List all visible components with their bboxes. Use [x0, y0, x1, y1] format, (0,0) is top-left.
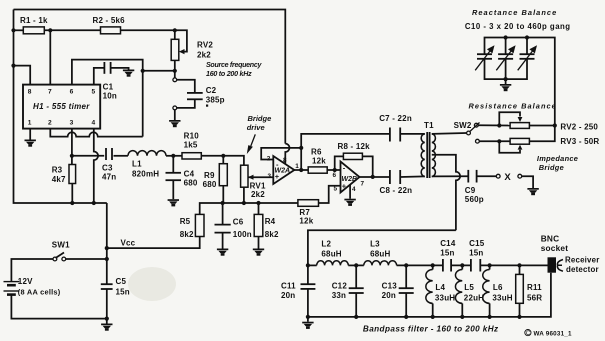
svg-text:10n: 10n — [103, 92, 117, 101]
svg-text:L2: L2 — [321, 240, 331, 249]
junction R2-RV2 top — [173, 28, 177, 32]
svg-text:C: C — [526, 331, 531, 337]
svg-text:C3: C3 — [102, 164, 113, 173]
C10c arrow — [518, 45, 537, 70]
speck near 385p — [206, 105, 208, 107]
wire C12 stubs — [355, 265, 357, 288]
wire C11 stub bottom — [307, 289, 309, 317]
junction SW1-C5 node — [105, 257, 109, 261]
wire filter ground stub — [307, 317, 309, 322]
svg-text:385p: 385p — [206, 95, 225, 104]
wire L2 to L3 — [348, 264, 364, 266]
svg-text:33n: 33n — [332, 291, 346, 300]
svg-text:820mH: 820mH — [132, 170, 159, 179]
svg-text:RV2: RV2 — [197, 41, 213, 50]
wire pin 1 to ground — [29, 129, 31, 140]
inductor L2 68uH — [317, 261, 349, 266]
wire C10 gang top rail — [485, 38, 555, 126]
wire R4 top lead — [258, 203, 260, 214]
potentiometer RV2 2k2 — [171, 39, 179, 60]
svg-text:2k2: 2k2 — [197, 51, 211, 60]
svg-text:7: 7 — [361, 180, 365, 187]
svg-text:3: 3 — [70, 120, 74, 127]
wire C8 right plate to T1 primary bottom — [400, 175, 425, 178]
junction pin4 rail — [92, 201, 96, 205]
svg-text:L6: L6 — [493, 283, 503, 292]
wire center tap feed left to filter input — [308, 230, 456, 265]
junction pin3-R3-C3 — [70, 154, 74, 158]
junction RV2 left-wiper node — [497, 123, 501, 127]
resistor R10 — [182, 153, 201, 159]
svg-text:20n: 20n — [382, 291, 396, 300]
svg-text:6: 6 — [70, 89, 74, 96]
svg-text:C9: C9 — [465, 186, 476, 195]
junction L5 top — [460, 263, 464, 267]
potentiometer RV1 2k2 — [241, 165, 248, 187]
wire R9 bottom lead — [222, 186, 224, 203]
capacitor C4 — [166, 173, 182, 180]
receiver detector probe symbol — [557, 260, 563, 272]
wire battery top to SW1 — [11, 259, 53, 282]
svg-text:W2B: W2B — [342, 176, 358, 183]
svg-text:C14: C14 — [440, 239, 456, 248]
wire pin 8 stub — [14, 66, 31, 85]
junction rail-pin8 — [11, 64, 15, 68]
ground W2B pin4 — [344, 199, 355, 206]
junction filter input C11 — [306, 263, 310, 267]
junction battery return node — [105, 317, 109, 321]
svg-text:drive: drive — [247, 123, 265, 132]
wire C7 right plate to T1 primary top — [400, 133, 425, 135]
svg-text:R11: R11 — [527, 283, 542, 292]
junction R10-R9-RV1 — [221, 154, 225, 158]
svg-text:2k2: 2k2 — [251, 190, 265, 199]
wire C9 to X terminal — [477, 175, 497, 177]
RV2 250 wiper loop — [499, 112, 520, 125]
jumper circle bottom — [173, 106, 177, 110]
wire bottom-left rail down to Vcc node and C5 top — [106, 203, 108, 284]
resistor R9 — [219, 164, 227, 186]
svg-text:4: 4 — [352, 186, 356, 193]
junction C11 bottom — [306, 315, 310, 319]
svg-text:68uH: 68uH — [321, 249, 341, 258]
svg-text:R2 - 5k6: R2 - 5k6 — [93, 16, 126, 25]
svg-text:R8 - 12k: R8 - 12k — [338, 142, 371, 151]
svg-text:Bandpass filter - 160 to 200 k: Bandpass filter - 160 to 200 kHz — [363, 325, 499, 334]
wire pin 3 down to node — [71, 129, 73, 156]
inductor L1 820mH — [128, 151, 166, 156]
wire RV3 right lead up to node — [529, 126, 554, 142]
junction C13 bottom — [404, 315, 408, 319]
svg-text:C4: C4 — [184, 170, 195, 179]
junction L4 bottom — [431, 315, 435, 319]
svg-text:6: 6 — [333, 172, 337, 179]
svg-text:WA 96031_1: WA 96031_1 — [534, 331, 572, 338]
svg-text:R3: R3 — [52, 165, 63, 174]
junction R1-R2-pin7 — [48, 28, 52, 32]
transformer T1 core lines — [426, 132, 428, 178]
wire C14 to C15 — [451, 264, 471, 266]
junction L1-C4-R10 — [171, 154, 175, 158]
junction W2A output node — [299, 168, 303, 172]
inductor L4 33uH — [432, 265, 434, 269]
junction rail-R1 — [11, 28, 15, 32]
ground C1 — [123, 70, 134, 77]
wire C11 stub top — [307, 265, 309, 284]
svg-text:20n: 20n — [281, 291, 295, 300]
svg-text:15n: 15n — [469, 248, 483, 257]
wire C15 to BNC — [480, 264, 547, 266]
op-amp W2A triangle — [273, 156, 294, 184]
svg-text:R4: R4 — [265, 217, 276, 226]
svg-text:3: 3 — [268, 173, 272, 180]
ground X terminal — [527, 188, 538, 195]
capacitor C13 — [399, 288, 414, 293]
svg-text:(8 AA cells): (8 AA cells) — [18, 287, 61, 296]
svg-text:L1: L1 — [132, 159, 142, 168]
copyright WA 96031_1 — [525, 330, 572, 338]
svg-text:R9: R9 — [204, 171, 215, 180]
wire RV1 wiper to W2A pin 3 — [248, 176, 273, 178]
svg-text:160 to 200 kHz: 160 to 200 kHz — [206, 70, 252, 78]
wire C5 node to ground — [106, 319, 108, 324]
wire R3 leads — [71, 156, 73, 165]
wire R4 bottom to ground — [258, 237, 260, 249]
svg-text:R1 - 1k: R1 - 1k — [20, 16, 48, 25]
svg-text:SW1: SW1 — [52, 240, 70, 249]
wire W2A feedback node down to output node — [300, 148, 302, 170]
svg-text:Source frequency: Source frequency — [206, 61, 262, 69]
svg-text:Bridge: Bridge — [248, 114, 272, 123]
svg-text:R10: R10 — [184, 132, 200, 141]
svg-text:5: 5 — [92, 89, 96, 96]
wire RV2 top terminal and wiper loop — [174, 30, 176, 39]
IC H1 555 timer box — [23, 85, 100, 129]
wire R9 top lead — [222, 156, 224, 164]
wire supply hop over feedback line — [285, 144, 289, 164]
wire top outer rail to W2A pin8 supply — [14, 10, 286, 144]
svg-text:W2A: W2A — [275, 168, 291, 175]
RV3 50R wiper arrowhead — [518, 145, 523, 150]
variable capacitor C10c — [520, 54, 535, 59]
svg-text:68uH: 68uH — [370, 249, 390, 258]
junction RV2-RV3-C10 right node — [553, 123, 557, 127]
capacitor C15 — [471, 259, 480, 272]
svg-text:T1: T1 — [424, 121, 434, 130]
RV3 50R wiper loop — [499, 141, 520, 153]
wire pin 2 down and right to pin6 node (hops pins 3,4) — [50, 129, 142, 137]
svg-text:detector: detector — [566, 265, 599, 274]
capacitor C1 — [104, 62, 110, 74]
wire C2 bottom to jumper bottom circle — [177, 99, 195, 108]
ground C2 jumper — [169, 120, 180, 127]
wire R8 right lead down to W2B output node — [362, 156, 372, 177]
capacitor C3 — [106, 148, 112, 160]
C10b arrow — [496, 45, 515, 70]
svg-text:C8 - 22n: C8 - 22n — [380, 186, 413, 195]
wire T1 secondary top to SW2 common — [432, 132, 467, 135]
SW2 selector circles — [467, 131, 471, 135]
resistor R2 — [101, 27, 121, 34]
svg-text:C15: C15 — [469, 239, 485, 248]
wire C4 bottom to ground — [172, 181, 174, 200]
svg-text:4k7: 4k7 — [52, 175, 66, 184]
wire RV2 wiper — [175, 30, 187, 51]
svg-text:33uH: 33uH — [435, 293, 455, 302]
svg-text:Bridge: Bridge — [539, 163, 564, 172]
svg-text:12k: 12k — [312, 157, 326, 166]
jumper circle top — [173, 78, 177, 82]
wire L1 to R10 via C4 node — [166, 155, 182, 157]
svg-text:C10 - 3 x 20 to 460p gang: C10 - 3 x 20 to 460p gang — [465, 22, 571, 31]
junction RV2 bottom — [173, 69, 177, 73]
wire inner rail R1 lead — [14, 29, 24, 31]
svg-text:15n: 15n — [440, 248, 454, 257]
svg-text:C5: C5 — [116, 277, 127, 286]
capacitor C5 — [101, 284, 113, 289]
svg-text:socket: socket — [541, 243, 569, 253]
svg-text:8: 8 — [283, 157, 287, 164]
capacitor C2 — [187, 93, 203, 99]
junction W2B output node — [371, 175, 375, 179]
svg-text:L5: L5 — [464, 283, 474, 292]
switch SW1 circles — [53, 257, 57, 261]
wire filter ground rail — [308, 273, 551, 317]
junction R11 bottom — [517, 315, 521, 319]
svg-text:15n: 15n — [116, 287, 130, 296]
capacitor C6 — [215, 225, 231, 233]
svg-text:L4: L4 — [435, 283, 445, 292]
wire T1 secondary bottom to C9 — [432, 175, 469, 177]
wire SW2 throw2 to RV3 row — [479, 140, 510, 142]
wire pin 7 stub — [49, 30, 51, 84]
svg-text:1k5: 1k5 — [184, 140, 198, 149]
junction pin2/6 node to C2 branch — [141, 69, 145, 73]
wire RV2 bottom to jumper circle — [174, 60, 176, 78]
junction C12 bottom — [354, 315, 358, 319]
capacitor C14 — [443, 259, 451, 272]
svg-text:680: 680 — [184, 178, 198, 187]
junction L6 bottom — [488, 315, 492, 319]
svg-text:4: 4 — [92, 120, 96, 127]
wire left vertical rail down to bottom-left rail — [14, 10, 107, 204]
svg-text:56R: 56R — [527, 293, 542, 302]
wire T1 center tap right then down (hops C9 wire) — [432, 155, 460, 230]
resistor R4 — [254, 214, 263, 236]
wire C5 bottom to battery-return node — [106, 289, 108, 319]
svg-text:680: 680 — [203, 180, 217, 189]
junction C10b top — [504, 35, 508, 39]
svg-text:C12: C12 — [332, 282, 348, 291]
wire jumper bottom circle to ground — [174, 110, 176, 120]
RV2 wiper arrowhead — [179, 49, 185, 54]
svg-text:1: 1 — [28, 120, 32, 127]
wire W2A output to R6 — [294, 169, 308, 171]
wire C4 down from node — [172, 156, 174, 173]
battery 12V plates — [4, 282, 20, 295]
resistor R3 — [69, 165, 76, 184]
wire W2A pin2 feedback bracket — [261, 148, 301, 160]
transformer T1 primary winding — [421, 134, 425, 177]
junction L4 top — [431, 263, 435, 267]
svg-text:47n: 47n — [102, 173, 116, 182]
junction R9-C6 bias rail — [221, 201, 225, 205]
capacitor C12 — [349, 288, 364, 293]
svg-text:Receiver: Receiver — [565, 256, 600, 265]
wire C10 cap3 top stub — [526, 38, 528, 55]
ground C4 — [168, 199, 179, 206]
transformer T1 secondary winding — [432, 134, 436, 177]
svg-text:RV3 - 50R: RV3 - 50R — [560, 137, 599, 146]
SW2 lever — [470, 123, 480, 132]
wire filter signal rail input to L2 — [308, 264, 317, 266]
C10a arrow — [475, 45, 494, 70]
svg-text:X: X — [504, 172, 511, 183]
svg-text:Vcc: Vcc — [121, 239, 136, 248]
svg-text:RV2 - 250: RV2 - 250 — [560, 122, 598, 131]
BNC socket body — [548, 257, 557, 272]
wire SW2 throw1 to RV2 row — [478, 124, 510, 126]
svg-text:100n: 100n — [233, 230, 252, 239]
junction W2B pin6 node — [333, 168, 337, 172]
wire C10 gang ground stub — [505, 79, 507, 84]
svg-text:C13: C13 — [382, 282, 398, 291]
svg-text:Reactance Balance: Reactance Balance — [472, 8, 557, 17]
capacitor C7 — [390, 128, 400, 142]
wire bias rail R5 C6 R4 to R7 — [200, 203, 298, 214]
svg-text:C1: C1 — [103, 83, 114, 92]
svg-text:1: 1 — [295, 163, 299, 170]
resistor R5 — [195, 214, 204, 236]
svg-text:Resistance Balance: Resistance Balance — [469, 101, 557, 110]
wire C10 gang bottom rail — [485, 59, 528, 79]
svg-text:7: 7 — [48, 89, 52, 96]
wire W2B output to C8 — [360, 176, 390, 178]
svg-text:R5: R5 — [180, 217, 191, 226]
svg-text:SW2: SW2 — [454, 121, 472, 130]
resistor R11 — [519, 265, 521, 274]
junction C10 gang ground node — [504, 77, 508, 81]
svg-text:8k2: 8k2 — [265, 230, 279, 239]
ground filter rail — [302, 322, 313, 329]
svg-text:8k2: 8k2 — [180, 230, 194, 239]
wire R3 bottom to rail — [71, 184, 73, 204]
wire C13 stubs — [405, 265, 407, 288]
wire L3 to C14 — [397, 264, 443, 266]
wire SW1 to Vcc node — [66, 258, 107, 260]
wire X right circle to ground — [522, 176, 533, 188]
RV1 wiper arrowhead — [248, 175, 254, 180]
RV2 250 wiper arrowhead — [518, 117, 523, 122]
Bridge drive arrow — [247, 134, 256, 154]
svg-text:560p: 560p — [465, 195, 484, 204]
svg-text:C2: C2 — [206, 86, 217, 95]
svg-text:R7: R7 — [299, 208, 310, 217]
wire R8 feedback loop — [335, 156, 344, 170]
junction L5 bottom — [460, 315, 464, 319]
svg-text:8: 8 — [28, 89, 32, 96]
wire C10 cap2 stubs — [505, 38, 507, 55]
SW1 lever — [56, 253, 65, 259]
junction C10c top — [525, 35, 529, 39]
svg-text:2: 2 — [267, 156, 271, 163]
wire RV1 bottom lead — [243, 187, 245, 203]
wire pin 5 stub to C1 — [94, 68, 104, 85]
ground R4 — [253, 249, 264, 256]
capacitor C9 — [468, 170, 476, 183]
wire R7 right lead up to W2B pin5 — [319, 186, 341, 203]
resistor R7 — [298, 200, 319, 207]
potentiometer RV2 250 body — [510, 123, 529, 129]
variable capacitor C10a — [477, 54, 492, 59]
svg-text:BNC: BNC — [541, 234, 560, 244]
junction RV3 left-wiper node — [497, 139, 501, 143]
wire battery bottom loop — [11, 295, 106, 319]
wire W2A feedback node up to C7 — [301, 134, 390, 148]
wire pin2/6 node to RV2 bottom — [143, 70, 175, 72]
wire C6 bottom to ground — [222, 233, 224, 249]
junction R4 top bias rail — [256, 201, 260, 205]
svg-text:RV1: RV1 — [250, 181, 266, 190]
svg-text:-: - — [343, 164, 346, 173]
resistor R1 — [23, 27, 44, 34]
resistor R6 — [308, 167, 327, 173]
junction L6 top — [488, 263, 492, 267]
variable capacitor C10b — [498, 54, 513, 59]
junction RV1 bottom bias rail — [242, 201, 246, 205]
op-amp W2B triangle — [341, 162, 360, 193]
ground C10 gang — [500, 84, 511, 91]
wire jumper top circle to C2 top — [177, 80, 195, 92]
svg-text:22uH: 22uH — [464, 293, 484, 302]
ground C6 — [217, 249, 228, 256]
wire pin 4 down to bottom rail (hops C3 wire) — [94, 129, 98, 203]
junction W2A feedback node — [299, 146, 303, 150]
svg-text:L3: L3 — [370, 240, 380, 249]
wire C6 top lead — [222, 203, 224, 225]
inductor L3 68uH — [364, 261, 397, 266]
wire R1 to R2 via pin7 node — [44, 29, 100, 31]
ground pin1 — [25, 140, 36, 147]
wire R6 to W2B pin6 node — [327, 169, 340, 171]
svg-text:Impedance: Impedance — [537, 154, 578, 163]
junction R3 bottom rail — [70, 201, 74, 205]
junction Vcc node — [105, 246, 109, 250]
svg-text:33uH: 33uH — [492, 293, 512, 302]
X terminal circles — [496, 174, 500, 178]
wire R5 bottom to Vcc line — [107, 237, 200, 249]
wire R2 to RV2 top — [121, 29, 175, 31]
svg-text:12V: 12V — [18, 277, 33, 286]
capacitor C8 — [390, 170, 400, 184]
svg-text:5: 5 — [334, 186, 338, 193]
svg-text:C6: C6 — [233, 218, 244, 227]
junction C12 top — [354, 263, 358, 267]
svg-text:C11: C11 — [281, 282, 296, 291]
inductor L5 22uH — [461, 265, 463, 269]
wire pin 6 stub up and right — [72, 60, 143, 137]
junction C13 top — [404, 263, 408, 267]
wire C1 right plate to ground — [111, 68, 129, 70]
svg-text:R6: R6 — [311, 148, 322, 157]
svg-text:C7 - 22n: C7 - 22n — [379, 114, 412, 123]
wire W2B pin4 to ground — [349, 185, 351, 199]
wire C3 to L1 — [114, 155, 129, 157]
potentiometer RV3 50R body — [510, 138, 529, 144]
resistor R8 — [343, 153, 362, 159]
svg-text:12k: 12k — [299, 217, 313, 226]
wire RV2 balance right lead — [529, 125, 554, 127]
